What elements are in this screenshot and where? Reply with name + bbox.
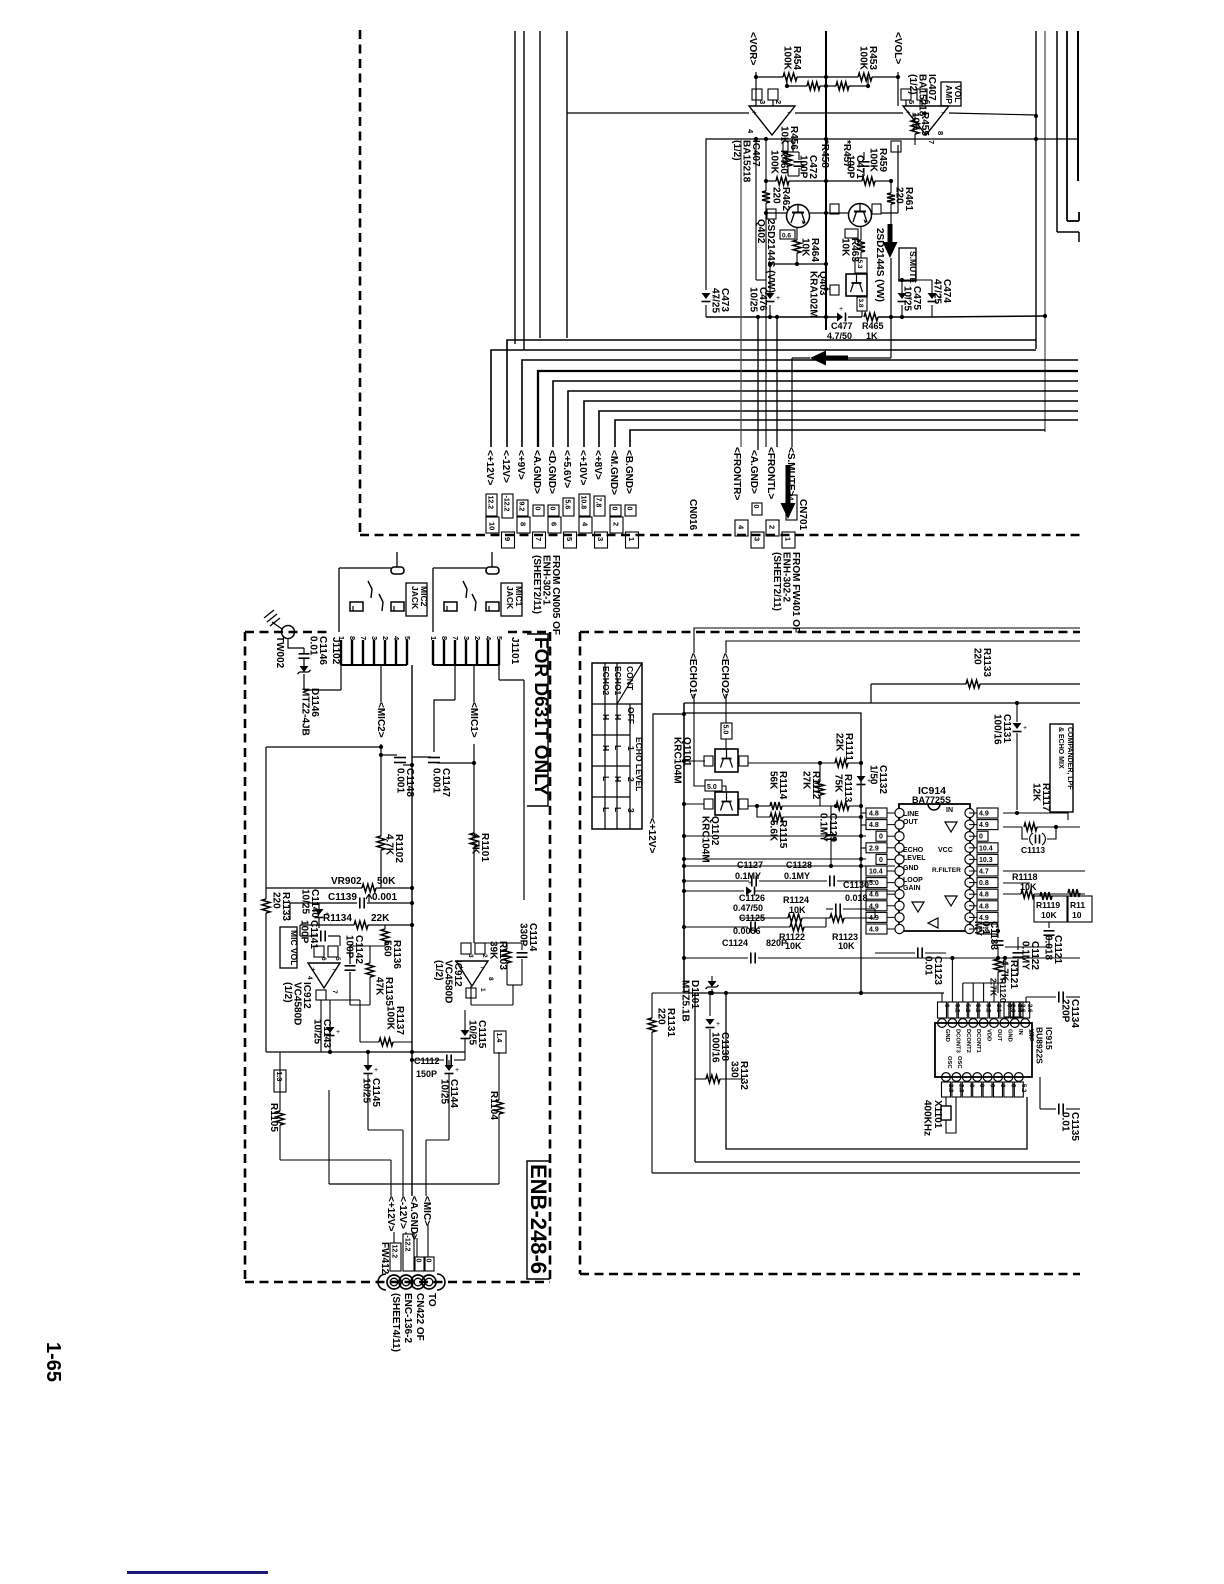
pin box 3.8 below Q403 — [857, 297, 867, 311]
svg-text:75K: 75K — [833, 774, 844, 793]
wire bus staircase to connector CN016 — [491, 350, 1036, 447]
zener diode D1146 MTZ2-4JB — [300, 666, 309, 672]
svg-text:H: H — [601, 714, 611, 720]
svg-text:R1119: R1119 — [1036, 900, 1060, 910]
svg-text:22K: 22K — [834, 733, 845, 752]
IC915 bottom pins — [942, 1073, 951, 1082]
svg-text:10: 10 — [1072, 910, 1082, 920]
svg-text:47/25: 47/25 — [932, 279, 943, 304]
jack J1101 internal contacts — [486, 567, 499, 574]
jack J1102 internal contacts — [391, 567, 404, 574]
svg-text:VR902: VR902 — [331, 876, 362, 887]
svg-text:4.9: 4.9 — [869, 915, 879, 922]
connector CN016 voltage boxes — [486, 494, 497, 516]
svg-text:MIC VOL: MIC VOL — [289, 930, 299, 965]
svg-text:560: 560 — [382, 940, 393, 957]
pin box 5.0 above Q1101 — [721, 723, 732, 739]
svg-text:MTZ2-4JB: MTZ2-4JB — [300, 688, 311, 736]
op-amp U1a IC407 BA15218 (1/2) — [749, 106, 795, 135]
wire IC914 left connections — [861, 812, 866, 814]
svg-text:220P: 220P — [1060, 999, 1071, 1023]
svg-text:3: 3 — [758, 100, 767, 104]
wire op-amp U2b output — [470, 986, 472, 1005]
svg-text:<+12V>: <+12V> — [385, 1196, 396, 1231]
svg-text:2: 2 — [768, 525, 777, 529]
svg-text:10K: 10K — [785, 941, 802, 951]
svg-text:12.2: 12.2 — [486, 496, 493, 510]
svg-text:5.3: 5.3 — [856, 260, 863, 269]
svg-text:H: H — [613, 776, 623, 782]
capacitor C1143 10/25 — [326, 1027, 335, 1033]
svg-text:2: 2 — [381, 636, 390, 640]
svg-text:0.01: 0.01 — [308, 636, 319, 656]
capacitor C1126 0.47/50 — [746, 887, 752, 896]
svg-text:& ECHO MIX: & ECHO MIX — [1057, 727, 1064, 769]
svg-text:AMP: AMP — [944, 85, 954, 104]
svg-text:27K: 27K — [801, 771, 812, 790]
capacitor C476 10/25 — [766, 293, 775, 299]
transistor Q401 2SD2144S (VW) — [849, 204, 872, 227]
svg-text:3: 3 — [753, 537, 762, 541]
svg-text:22K: 22K — [371, 913, 390, 924]
svg-text:4.9: 4.9 — [869, 903, 879, 910]
svg-text:<+8V>: <+8V> — [592, 450, 603, 480]
svg-text:0: 0 — [879, 857, 883, 864]
wire IC915 top risers — [941, 993, 943, 1002]
svg-text:2.6: 2.6 — [1026, 1004, 1032, 1013]
svg-text:R1104: R1104 — [488, 1091, 499, 1120]
label VOL AMP boxed — [941, 82, 961, 106]
svg-text:220: 220 — [894, 187, 905, 204]
svg-text:0: 0 — [414, 1259, 421, 1263]
pin box 1.4 — [494, 1031, 506, 1053]
resistor R1112 27K — [819, 763, 821, 782]
svg-text:2: 2 — [473, 636, 482, 640]
svg-text:DCONT2: DCONT2 — [965, 1029, 971, 1053]
wire TW002 to C1146 — [288, 639, 304, 648]
svg-text:ECHO1: ECHO1 — [613, 666, 623, 696]
svg-text:0.018: 0.018 — [1043, 935, 1054, 960]
capacitor C473 47/25 — [702, 293, 711, 299]
svg-text:−: − — [480, 963, 485, 972]
svg-text:7: 7 — [331, 990, 338, 994]
svg-text:9: 9 — [503, 537, 512, 541]
terminal TW002 with ground — [282, 626, 295, 639]
svg-text:100K: 100K — [868, 148, 879, 173]
svg-text:JACK: JACK — [505, 586, 515, 610]
svg-text:ECHO LEVEL: ECHO LEVEL — [634, 737, 644, 791]
svg-text:IN: IN — [1017, 1029, 1023, 1035]
svg-text:5: 5 — [334, 957, 341, 961]
svg-text:GND: GND — [903, 865, 919, 872]
svg-text:0.01: 0.01 — [1060, 1112, 1071, 1132]
block boundary: D631T dashed box — [244, 632, 247, 1282]
wire Q401 base and collector — [834, 212, 849, 214]
svg-text:R1118: R1118 — [1012, 872, 1038, 882]
wire right cluster verticals — [1035, 31, 1037, 349]
op-amp U1b output pin box — [891, 141, 901, 152]
svg-text:4.7: 4.7 — [979, 869, 989, 876]
svg-text:C1139: C1139 — [328, 892, 357, 903]
svg-text:220: 220 — [771, 187, 782, 204]
svg-text:DCONT1: DCONT1 — [975, 1029, 981, 1054]
resistor R1133 220 — [265, 747, 267, 899]
resistor R1114 56K — [748, 805, 757, 807]
resistor R464 10K — [796, 228, 798, 240]
svg-text:Q402: Q402 — [755, 219, 766, 244]
svg-text:<ECHO2>: <ECHO2> — [719, 653, 730, 699]
pin box 5.0 left of Q1102 — [705, 780, 722, 791]
capacitor C1129 0.1MY — [830, 817, 832, 828]
wire bias row y280 — [756, 279, 766, 281]
svg-text:5.6K: 5.6K — [768, 820, 779, 842]
svg-text:(1/2): (1/2) — [433, 960, 444, 981]
wire top rails echo block — [684, 702, 1080, 704]
IC U3 IC914 BA7725S body — [899, 804, 970, 931]
capacitor C1147 0.001 — [412, 756, 431, 758]
digital transistor Q403 KRA102M — [846, 274, 867, 296]
svg-text:0.47/50: 0.47/50 — [733, 903, 763, 913]
svg-text:0.001: 0.001 — [372, 892, 397, 903]
svg-text:<D.GND>: <D.GND> — [546, 450, 557, 494]
svg-text:3: 3 — [626, 808, 636, 813]
capacitor C1132 1/50 — [857, 776, 866, 782]
svg-text:3.8: 3.8 — [857, 299, 864, 308]
capacitor C477 4.7/50 — [837, 313, 843, 322]
svg-text:4.8: 4.8 — [869, 811, 879, 818]
svg-text:10.8: 10.8 — [579, 496, 586, 510]
resistor R1113 75K — [836, 802, 849, 810]
wire mic block lower nets — [266, 1051, 465, 1053]
svg-text:47/25: 47/25 — [710, 288, 721, 313]
resistor R1133 220 at compander — [871, 683, 966, 685]
svg-text:2SD2144S (VW): 2SD2144S (VW) — [874, 228, 885, 302]
wire long row y317 — [706, 316, 837, 318]
capacitor C1122 0.1MY — [1017, 937, 1019, 950]
svg-text:10/25: 10/25 — [439, 1079, 450, 1104]
svg-text:<-12V>: <-12V> — [500, 450, 511, 483]
svg-text:1: 1 — [479, 988, 486, 992]
svg-text:GND: GND — [1006, 1029, 1012, 1042]
svg-text:(1/2): (1/2) — [907, 74, 918, 95]
svg-text:L: L — [601, 776, 611, 781]
svg-text:C1124: C1124 — [722, 938, 748, 948]
resistor R1101 4.7K — [470, 833, 478, 847]
wire +12V rail — [653, 714, 684, 818]
svg-text:COMPANDER, LPF: COMPANDER, LPF — [1066, 727, 1073, 790]
svg-text:<B.GND>: <B.GND> — [623, 450, 634, 494]
digital transistor Q1102 KRC104M — [715, 792, 738, 815]
svg-text:L: L — [613, 745, 623, 750]
capacitor C1134 220P — [1025, 997, 1027, 1003]
capacitor C474 47/25 — [928, 293, 937, 299]
wire bus from top-left into staircase — [514, 31, 516, 344]
svg-text:<MIC1>: <MIC1> — [468, 702, 479, 738]
svg-text:+: + — [752, 108, 757, 117]
svg-text:<+12V>: <+12V> — [484, 450, 495, 485]
svg-text:MY: MY — [972, 921, 983, 936]
resistor R1104 — [498, 1052, 500, 1100]
resistor R1131 220 — [651, 993, 653, 1018]
svg-text:S.MUTE: S.MUTE — [908, 251, 918, 283]
svg-text:6: 6 — [320, 957, 327, 961]
svg-text:0: 0 — [424, 1259, 431, 1263]
svg-text:*R458: *R458 — [819, 140, 830, 168]
svg-text:<ECHO1>: <ECHO1> — [687, 653, 698, 699]
svg-text:-12.2: -12.2 — [502, 496, 509, 512]
svg-text:CN016: CN016 — [687, 499, 698, 531]
svg-text:2: 2 — [612, 522, 621, 526]
resistor R1102 4.7K — [377, 836, 385, 850]
capacitor C1140 10/25 — [315, 909, 324, 915]
svg-text:FW412: FW412 — [379, 1242, 390, 1275]
resistor R1121 4.7K — [997, 958, 999, 959]
svg-text:KRA102M: KRA102M — [808, 271, 819, 318]
wire D1101 row — [684, 992, 944, 994]
svg-text:+: + — [311, 965, 316, 974]
svg-text:CN701: CN701 — [797, 499, 808, 531]
svg-text:150P: 150P — [416, 1069, 437, 1079]
svg-text:10K: 10K — [779, 126, 790, 145]
svg-text:5.6: 5.6 — [563, 500, 570, 510]
resistor R1135 47K — [369, 946, 371, 963]
svg-text:−: − — [941, 108, 946, 117]
svg-text:BU8922S: BU8922S — [1035, 1027, 1045, 1064]
svg-text:ECHO2: ECHO2 — [601, 666, 611, 696]
svg-text:<+9V>: <+9V> — [515, 450, 526, 480]
svg-text:C477: C477 — [831, 321, 853, 331]
svg-text:1: 1 — [784, 537, 793, 541]
svg-text:10K: 10K — [838, 941, 855, 951]
svg-text:IC915: IC915 — [1044, 1027, 1054, 1050]
svg-text:J1101: J1101 — [509, 637, 520, 665]
resistor R1120 10K — [1068, 896, 1092, 922]
connector CN016 pin number boxes — [486, 517, 499, 533]
svg-text:OUT: OUT — [903, 819, 919, 826]
op-amp U2b IC912 VC4580D (1/2) — [456, 961, 488, 986]
resistor R1111 22K — [748, 762, 835, 764]
resistor R463 10K — [860, 227, 862, 240]
svg-text:5: 5 — [565, 537, 574, 541]
svg-text:C1128: C1128 — [786, 860, 812, 870]
svg-text:<-12V>: <-12V> — [397, 1196, 408, 1229]
wire ECHO2 down to Q1101 collector box — [725, 694, 727, 723]
crystal X1101 400KHz — [945, 1097, 947, 1106]
resistor R460 100K — [766, 180, 776, 182]
svg-text:10K: 10K — [910, 112, 921, 131]
svg-text:DCONT3: DCONT3 — [954, 1029, 960, 1054]
svg-text:1/50: 1/50 — [868, 765, 879, 785]
svg-text:10.3: 10.3 — [979, 857, 993, 864]
capacitor C1131 100/16 — [1016, 703, 1018, 722]
svg-text:0.001: 0.001 — [431, 768, 442, 793]
svg-text:OSC: OSC — [956, 1056, 962, 1069]
capacitor C1144 10/25 — [445, 1065, 454, 1071]
resistor R454 100K — [756, 76, 783, 78]
wire op-amp output row y139 — [713, 138, 1078, 140]
resistor *R457 — [826, 85, 836, 87]
resistor R1137 100K — [360, 1041, 379, 1043]
svg-text:100P: 100P — [344, 935, 355, 959]
svg-text:8: 8 — [936, 131, 945, 135]
svg-text:8: 8 — [440, 636, 449, 640]
svg-text:4.9: 4.9 — [979, 822, 989, 829]
svg-text:4.9: 4.9 — [979, 811, 989, 818]
svg-text:0.8: 0.8 — [979, 880, 989, 887]
capacitor C1145 10/25 — [364, 1065, 373, 1071]
svg-text:4.7K: 4.7K — [470, 833, 481, 855]
resistor R465 1K — [864, 313, 878, 321]
svg-text:10K: 10K — [800, 238, 811, 257]
svg-text:10/25: 10/25 — [902, 286, 913, 311]
wire ECHO1 branch to Q1102 — [694, 761, 705, 786]
svg-text:+: + — [716, 1021, 720, 1028]
svg-text:1: 1 — [627, 537, 636, 541]
feedback resistor R456 10K — [787, 141, 789, 152]
wire base stubs from +12V rail — [684, 760, 704, 762]
svg-text:OSC: OSC — [946, 1056, 952, 1069]
label COMPANDER, LPF & ECHO MIX boxed — [1050, 724, 1073, 812]
svg-text:MTZ5.1B: MTZ5.1B — [680, 980, 691, 1022]
svg-text:9.2: 9.2 — [517, 502, 524, 512]
svg-text:TO: TO — [426, 1293, 437, 1307]
wire op-amp supply row y113 — [567, 112, 749, 114]
label S.MUTE boxed — [899, 248, 916, 281]
svg-text:100K: 100K — [769, 150, 780, 175]
footer rule — [127, 1571, 268, 1574]
svg-text:KRC104M: KRC104M — [700, 816, 711, 863]
svg-text:10K: 10K — [789, 905, 806, 915]
svg-text:3: 3 — [462, 636, 471, 640]
svg-text:330: 330 — [729, 1061, 740, 1078]
svg-text:0: 0 — [533, 507, 540, 511]
svg-text:GND: GND — [944, 1029, 950, 1042]
svg-text:(SHEET2/11): (SHEET2/11) — [771, 552, 782, 611]
resistor R453 100K — [826, 76, 858, 78]
wire vertical x568 — [566, 31, 568, 338]
svg-text:JACK: JACK — [410, 586, 420, 610]
IC914 left pins — [895, 808, 904, 817]
resistor R1103 39K — [506, 943, 508, 949]
svg-text:56K: 56K — [768, 771, 779, 790]
svg-text:10K: 10K — [1041, 910, 1057, 920]
wire mute return row y358 with arrow — [792, 357, 810, 359]
svg-text:C1126: C1126 — [739, 893, 765, 903]
resistor R1122 10K — [790, 923, 804, 931]
svg-text:CONT: CONT — [625, 666, 635, 691]
capacitor C1138 100/16 — [709, 993, 711, 1016]
svg-text:R465: R465 — [862, 321, 884, 331]
svg-text:10/25: 10/25 — [467, 1020, 478, 1045]
svg-text:<A.GND>: <A.GND> — [748, 450, 759, 494]
svg-text:4.8: 4.8 — [869, 822, 879, 829]
svg-text:GAIN: GAIN — [903, 885, 921, 892]
svg-text:2: 2 — [774, 100, 783, 104]
svg-text:X1101: X1101 — [932, 1100, 943, 1129]
svg-text:<A.GND>: <A.GND> — [531, 450, 542, 494]
svg-text:1.3: 1.3 — [275, 1072, 282, 1082]
resistor R1132 330 — [695, 1078, 706, 1080]
svg-text:C1113: C1113 — [1021, 845, 1045, 855]
resistor R459 100K — [826, 180, 862, 182]
svg-text:R1134: R1134 — [323, 913, 352, 924]
svg-text:0.001: 0.001 — [395, 768, 406, 793]
connector FW412 voltage boxes — [390, 1243, 401, 1271]
wire Q402 base and collector — [766, 212, 787, 214]
resistor R1119 10K boxed pair — [1034, 896, 1067, 922]
svg-text:<FRONTL>: <FRONTL> — [765, 447, 776, 499]
svg-text:<+5.6V>: <+5.6V> — [561, 450, 572, 488]
svg-text:10/25: 10/25 — [300, 889, 311, 914]
block boundary: echo dashed box — [579, 632, 582, 1274]
svg-text:R1120: R1120 — [998, 978, 1008, 1003]
svg-text:7.8: 7.8 — [594, 498, 601, 508]
wire D1146 to jack bus — [304, 689, 341, 691]
svg-text:5.2: 5.2 — [1020, 1084, 1026, 1093]
wire row y866 — [684, 865, 895, 867]
op-amp U1a output pin box — [783, 141, 793, 152]
wire IC914 right rows — [1003, 813, 1068, 820]
svg-text:3: 3 — [467, 954, 474, 958]
svg-text:100/16: 100/16 — [710, 1032, 721, 1063]
svg-text:4: 4 — [306, 976, 313, 980]
svg-text:7: 7 — [927, 140, 936, 144]
svg-text:<MIC2>: <MIC2> — [375, 702, 386, 738]
svg-text:R.FILTER: R.FILTER — [932, 867, 961, 874]
svg-text:ENB-248-6: ENB-248-6 — [526, 1164, 551, 1274]
svg-text:R11: R11 — [1070, 900, 1085, 910]
svg-text:100K: 100K — [782, 46, 793, 71]
svg-text:<FRONTR>: <FRONTR> — [731, 447, 742, 501]
IC915 top pins — [938, 1019, 947, 1028]
svg-text:5: 5 — [403, 636, 412, 640]
svg-text:5.0: 5.0 — [869, 880, 879, 887]
svg-text:3: 3 — [596, 537, 605, 541]
svg-text:C1112: C1112 — [414, 1056, 440, 1066]
svg-text:−: − — [332, 965, 337, 974]
svg-text:4.6: 4.6 — [869, 892, 879, 899]
connector CN701 voltage boxes — [752, 503, 762, 515]
svg-text:10.4: 10.4 — [869, 869, 883, 876]
svg-text:7: 7 — [534, 537, 543, 541]
resistor R461 220 — [890, 181, 892, 193]
capacitor C1115 10/25 — [461, 1030, 470, 1036]
svg-text:10/25: 10/25 — [361, 1078, 372, 1103]
svg-text:LINE: LINE — [903, 811, 919, 818]
wire VOR to R454 row — [755, 72, 757, 106]
block boundary: VOL AMP dashed box bottom edge — [360, 534, 1080, 537]
wire IC915 bottom loop — [726, 993, 1027, 1149]
svg-text:J1102: J1102 — [330, 637, 341, 665]
svg-text:KRC104M: KRC104M — [672, 737, 683, 784]
svg-text:5.0: 5.0 — [721, 725, 728, 735]
feedback capacitor C471 100P — [863, 152, 865, 160]
svg-text:<+12V>: <+12V> — [646, 818, 657, 853]
svg-text:(SHEET2/11): (SHEET2/11) — [531, 555, 542, 614]
resistor R1115 5.6K — [757, 806, 770, 817]
svg-text:L: L — [601, 807, 611, 812]
op-amp U1b IC407 BA15218 (1/2) — [903, 106, 949, 135]
svg-text:0: 0 — [548, 507, 555, 511]
svg-text:2.7K: 2.7K — [989, 978, 999, 997]
jack J1102 pins — [340, 640, 342, 665]
svg-text:1: 1 — [429, 636, 438, 640]
svg-text:39K: 39K — [488, 941, 499, 960]
capacitor C1148 0.001 — [381, 754, 397, 756]
svg-text:7: 7 — [451, 636, 460, 640]
svg-text:VCC: VCC — [938, 847, 953, 854]
svg-text:12K: 12K — [1031, 783, 1042, 802]
